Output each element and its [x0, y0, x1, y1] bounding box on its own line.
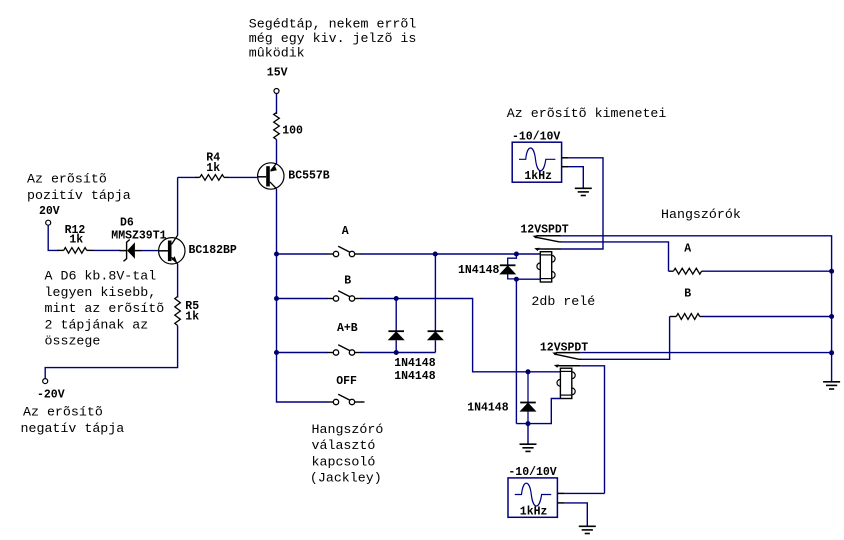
svg-text:2 tápjának az: 2 tápjának az: [45, 317, 149, 332]
svg-text:választó: választó: [312, 438, 376, 453]
wire bus to switch A: [278, 253, 328, 255]
svg-text:Az erõsítõ kimenetei: Az erõsítõ kimenetei: [507, 106, 667, 121]
svg-text:A: A: [684, 242, 691, 255]
diode D4 1N4148 snubber: [467, 402, 536, 415]
wire D6 to Q2 base: [142, 250, 159, 252]
wire Q2 collector up: [177, 177, 179, 235]
svg-text:20V: 20V: [39, 205, 60, 218]
svg-text:15V: 15V: [267, 67, 288, 80]
svg-text:Hangszórók: Hangszórók: [661, 207, 741, 222]
resistor R4 1k: [196, 152, 229, 181]
node junction D4-gnd: [526, 421, 531, 426]
label speakers: [661, 207, 741, 222]
wire K2 throw1 to ground bus: [580, 352, 832, 354]
wire speaker A to ground bus: [703, 270, 832, 272]
switch OFF: [327, 375, 361, 404]
transistor Q1 BC557B: [258, 163, 330, 189]
svg-text:12VSPDT: 12VSPDT: [520, 223, 568, 236]
wire switch A to relay K1 coil: [361, 253, 540, 255]
svg-text:-10/10V: -10/10V: [508, 466, 556, 479]
svg-text:1k: 1k: [206, 162, 220, 175]
node junction A-D3: [514, 252, 519, 257]
label amplifier outputs: [507, 106, 667, 121]
svg-text:1N4148: 1N4148: [394, 370, 436, 383]
wire R100 to Q1 emitter: [276, 140, 278, 165]
wire D2 cathode: [434, 254, 436, 331]
wire K1 throw1 to ground bus: [561, 236, 832, 382]
svg-text:BC182BP: BC182BP: [189, 244, 237, 257]
node junction bus-A: [274, 252, 279, 257]
resistor speaker B: [670, 288, 703, 320]
wire bus to switch A+B: [278, 352, 328, 354]
svg-text:D6: D6: [120, 216, 134, 229]
wire V1 out to relay K1: [560, 158, 603, 249]
svg-text:mûködik: mûködik: [249, 45, 305, 60]
ground V2: [579, 526, 596, 533]
wire K1 common to speaker A: [562, 242, 669, 271]
wire V1 gnd: [569, 167, 584, 189]
svg-text:-10/10V: -10/10V: [512, 130, 560, 143]
ground V1: [575, 188, 592, 195]
wire D4 anode: [527, 411, 529, 423]
svg-text:még egy kiv. jelzõ is: még egy kiv. jelzõ is: [249, 31, 417, 46]
wire 20V down: [48, 225, 58, 250]
svg-text:1kHz: 1kHz: [524, 170, 552, 183]
wire switch B to relay K2 coil: [361, 299, 560, 372]
svg-text:OFF: OFF: [336, 375, 357, 388]
svg-text:Segédtáp, nekem errõl: Segédtáp, nekem errõl: [249, 17, 417, 32]
relay K2 coil: [557, 368, 575, 398]
label positive supply: [27, 172, 131, 203]
wire D4 cathode: [527, 372, 529, 403]
diode D3 1N4148 snubber: [458, 264, 516, 277]
node junction K2coil-D4: [526, 369, 531, 374]
svg-text:legyen kisebb,: legyen kisebb,: [45, 285, 157, 300]
wire Q2 emitter to R5: [177, 264, 179, 298]
svg-text:BC557B: BC557B: [288, 170, 330, 183]
wire switch A+B to diodes: [361, 352, 435, 354]
label negative supply: [21, 405, 125, 436]
wire speaker B to ground bus: [703, 316, 832, 318]
zener diode D6 MMSZ39T1: [111, 216, 166, 261]
signal source V2 -10/10V 1kHz: [508, 466, 564, 518]
svg-text:Az erõsítõ: Az erõsítõ: [23, 405, 103, 420]
wire gnd node down: [527, 424, 529, 445]
svg-text:Hangszóró: Hangszóró: [312, 422, 384, 437]
svg-text:1N4148: 1N4148: [394, 357, 436, 370]
svg-text:1N4148: 1N4148: [467, 402, 509, 415]
svg-text:-20V: -20V: [37, 389, 65, 402]
wire K2 common to speaker B: [582, 317, 670, 360]
node 20V terminal: [39, 205, 60, 225]
svg-text:pozitív tápja: pozitív tápja: [27, 188, 131, 203]
svg-text:(Jackley): (Jackley): [310, 471, 382, 486]
switch A: [327, 225, 361, 257]
label 2db rele: [531, 294, 595, 309]
wire R4 to Q1 base: [229, 176, 259, 179]
label steering diodes: [394, 357, 436, 383]
wire D3 jog bottom: [508, 274, 517, 279]
relay K1 coil: [537, 252, 555, 282]
svg-text:negatív tápja: negatív tápja: [21, 421, 125, 436]
svg-text:100: 100: [282, 125, 303, 138]
svg-text:kapcsoló: kapcsoló: [312, 454, 376, 469]
svg-text:Az erõsítõ: Az erõsítõ: [27, 172, 107, 187]
svg-text:1kHz: 1kHz: [520, 506, 548, 519]
svg-text:2db relé: 2db relé: [531, 294, 595, 309]
wire Q1 collector bus: [277, 189, 328, 402]
node junction bus-AB: [274, 350, 279, 355]
resistor R5 1k: [175, 297, 199, 326]
label selector switch: [310, 422, 383, 486]
node junction gndbus-A: [829, 269, 834, 274]
ground speaker return: [823, 382, 840, 389]
node junction D3-coil1: [514, 277, 519, 282]
wire Q2 collector to R4: [178, 176, 197, 178]
wire coil1 bottom: [516, 278, 540, 280]
node junction A-D2: [433, 252, 438, 257]
relay K1 SPDT contact: [533, 235, 562, 251]
node junction gndbus-K2: [829, 350, 834, 355]
node -20V terminal: [37, 379, 65, 402]
diode D1 1N4148: [388, 331, 404, 340]
svg-text:1k: 1k: [69, 234, 83, 247]
wire V2 gnd: [564, 503, 587, 526]
node junction B-D1: [394, 296, 399, 301]
node junction gndbus-B: [829, 314, 834, 319]
wire K2 throw2 to V2: [580, 366, 604, 494]
relay K2 SPDT contact: [552, 352, 581, 368]
wire bus to switch B: [278, 298, 328, 300]
svg-text:B: B: [344, 275, 351, 288]
node junction bus-B: [274, 296, 279, 301]
svg-text:A D6 kb.8V-tal: A D6 kb.8V-tal: [45, 269, 157, 284]
wire D1 cathode: [395, 299, 397, 332]
wire R12 to D6: [94, 249, 121, 251]
resistor R12 1k: [58, 224, 94, 253]
signal source V1 -10/10V 1kHz: [512, 130, 569, 183]
wire V2 out to relay K2: [564, 492, 604, 494]
wire 15V to R100: [276, 94, 278, 115]
svg-text:mint az erõsítõ: mint az erõsítõ: [45, 301, 165, 316]
label auxiliary supply note: [249, 17, 417, 61]
wire coil1 to ground node: [515, 279, 517, 423]
wire D3 jog top: [508, 254, 517, 265]
transistor Q2 BC182BP: [159, 235, 237, 264]
node junction AB-D1: [394, 350, 399, 355]
diode D2 1N4148: [428, 331, 444, 340]
svg-text:A+B: A+B: [337, 322, 358, 335]
svg-text:B: B: [684, 288, 691, 301]
switch B: [327, 275, 361, 301]
wire R5 to -20V: [45, 326, 177, 379]
wire switch OFF stub: [361, 401, 365, 403]
label relay K2: [540, 341, 588, 354]
switch A+B: [327, 322, 361, 355]
svg-text:MMSZ39T1: MMSZ39T1: [111, 229, 166, 242]
label relay K1: [520, 223, 568, 236]
label D6 note: [45, 269, 165, 349]
resistor 100: [274, 113, 303, 140]
wire coil2 bottom: [516, 399, 560, 424]
resistor speaker A: [669, 242, 703, 274]
svg-text:1N4148: 1N4148: [458, 264, 500, 277]
wire D2 anode: [434, 340, 436, 352]
svg-text:összege: összege: [45, 334, 101, 349]
node 15V supply terminal: [267, 67, 288, 94]
wire D1 anode: [395, 340, 397, 352]
svg-text:1k: 1k: [185, 311, 199, 324]
svg-text:A: A: [342, 225, 349, 238]
ground relay coils: [520, 444, 537, 451]
